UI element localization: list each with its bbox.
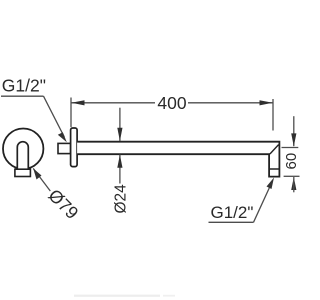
arm end slot (front view) bbox=[17, 142, 28, 169]
dim 60: lower tick bbox=[284, 175, 300, 177]
label G1/2 top-left leader bbox=[44, 96, 65, 137]
dim O24: upper arrow (down) bbox=[117, 128, 122, 141]
dim O24: lower line bbox=[119, 155, 121, 184]
outlet connector top line bbox=[269, 168, 279, 170]
dim O24: lower arrow (up) bbox=[117, 155, 122, 168]
flange front view circle bbox=[3, 129, 43, 169]
svg-text:400: 400 bbox=[157, 93, 186, 113]
dim 400: line left part bbox=[71, 102, 155, 104]
bend miter line bbox=[270, 145, 279, 154]
label G1/2 top-left underline bbox=[1, 95, 44, 97]
outlet connector front view bbox=[15, 169, 31, 176]
svg-text:60: 60 bbox=[283, 153, 300, 170]
dim 60: lower line bbox=[293, 177, 295, 192]
arm outline side view bbox=[77, 142, 279, 177]
label G1/2 bottom-right arrow bbox=[267, 178, 275, 190]
wall connector side view bbox=[58, 143, 71, 153]
label O79 leader bbox=[33, 168, 50, 191]
label O79 arrow bbox=[33, 168, 41, 179]
label G1/2 bottom-right underline bbox=[209, 221, 254, 223]
dim 400: arrow left bbox=[71, 100, 84, 105]
dim 400: extension line left bbox=[70, 98, 72, 128]
svg-text:G1/2": G1/2" bbox=[2, 75, 46, 95]
dim 60: lower arrow (up) bbox=[291, 177, 296, 190]
dim 60: upper tick bbox=[282, 147, 299, 149]
dim 60: upper arrow (down) bbox=[291, 133, 296, 146]
svg-text:Ø24: Ø24 bbox=[113, 184, 130, 214]
faint footer smudge bbox=[74, 295, 160, 297]
svg-text:G1/2": G1/2" bbox=[211, 203, 254, 222]
dim 60: upper line bbox=[293, 116, 295, 146]
dim 400: line right part bbox=[188, 102, 273, 104]
dim 400: arrow right bbox=[260, 100, 273, 105]
dim 400: extension line right bbox=[272, 99, 274, 131]
dim O24: upper line bbox=[119, 108, 121, 141]
label G1/2 bottom-right leader bbox=[254, 182, 273, 222]
label G1/2 top-left arrow bbox=[58, 132, 67, 142]
flange plate side view bbox=[71, 128, 78, 167]
